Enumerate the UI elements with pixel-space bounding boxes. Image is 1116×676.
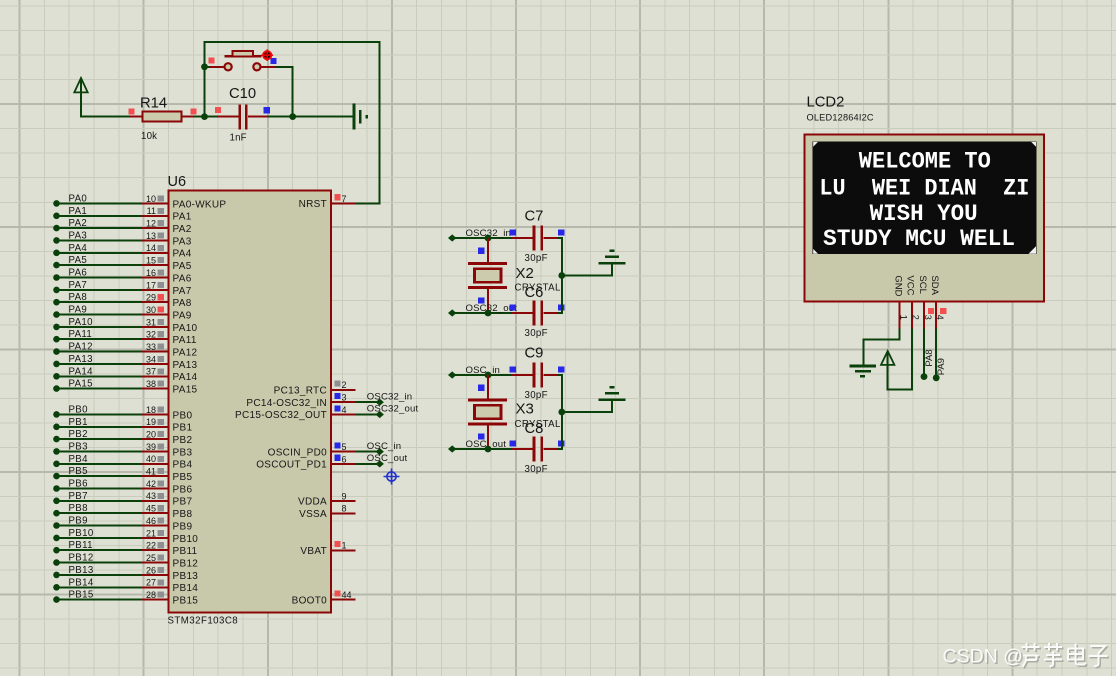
svg-text:PB2: PB2 [69,429,88,440]
svg-text:45: 45 [146,504,156,514]
pin PB15 (28) with wire [53,590,198,607]
origin crosshair marker [384,469,400,485]
svg-text:PA2: PA2 [69,218,88,229]
pin PA14 (37) with wire [53,366,197,383]
svg-text:PA12: PA12 [69,342,93,353]
power arrow (reset pull-up supply) [74,78,87,117]
pin PB13 (26) with wire [53,565,198,582]
pin PB2 (20) with wire [53,429,192,446]
svg-text:32: 32 [146,330,156,340]
wire: C10 right pin to junction B [267,116,293,118]
pin PC13_RTC (2) [274,380,356,396]
junction X3 right rail [558,409,565,416]
svg-text:1: 1 [899,315,909,320]
svg-text:PA1: PA1 [69,206,88,217]
LCD2 OLED12864I2C module [805,95,1045,302]
power arrow (LCD VCC) [881,351,894,365]
junction X2 right rail [558,272,565,279]
svg-text:9: 9 [342,491,347,501]
svg-text:BOOT0: BOOT0 [292,595,328,606]
capacitor C7 30pF (top) [512,208,564,263]
capacitor C9 30pF (top) [512,345,564,401]
pin PA4 (14) with wire [53,243,191,260]
svg-text:NRST: NRST [299,199,327,210]
svg-text:X2: X2 [516,265,534,282]
svg-text:PA2: PA2 [173,224,192,235]
pin PA10 (31) with wire [53,317,197,334]
svg-text:U6: U6 [168,174,187,190]
svg-text:PB1: PB1 [69,417,88,428]
svg-text:18: 18 [146,405,156,415]
pin NRST (7) [299,194,356,210]
svg-text:34: 34 [146,354,156,364]
svg-text:1nF: 1nF [230,133,247,144]
pin PB1 (19) with wire [53,417,192,434]
pin PB4 (40) with wire [53,454,192,471]
wire: junction A to C10 left pin [205,116,219,118]
pin PC15-OSC32_OUT (4) net OSC32_out [235,405,356,421]
pin PB14 (27) with wire [53,577,198,594]
junction X3 top [485,372,492,379]
svg-text:GND: GND [893,275,904,296]
svg-text:31: 31 [146,317,156,327]
svg-text:PB9: PB9 [69,516,88,527]
pin VSSA (8) [299,504,355,520]
svg-text:PA3: PA3 [69,230,88,241]
net OSC32_out (crystal side wire) [448,303,517,317]
svg-text:C6: C6 [525,285,544,301]
svg-text:PA8: PA8 [173,298,192,309]
svg-text:PB15: PB15 [173,596,199,607]
svg-text:PA5: PA5 [173,261,192,272]
ground (X2) [599,251,626,264]
svg-text:20: 20 [146,430,156,440]
LCD pin 3 SCL [917,275,934,328]
svg-text:PA10: PA10 [173,323,198,334]
svg-text:PC14-OSC32_IN: PC14-OSC32_IN [246,398,327,409]
svg-text:PC15-OSC32_OUT: PC15-OSC32_OUT [235,410,327,421]
svg-text:OSC32_out: OSC32_out [466,303,518,314]
svg-text:PB11: PB11 [69,540,93,551]
svg-text:VDDA: VDDA [298,497,327,508]
svg-text:LU WEI DIAN ZI: LU WEI DIAN ZI [819,176,1029,202]
wire: button left junction leads [205,66,211,68]
svg-text:PA5: PA5 [69,255,88,266]
resistor R14 10k [128,96,196,143]
svg-text:33: 33 [146,342,156,352]
svg-text:PA6: PA6 [173,273,192,284]
pin BOOT0 (44) [292,590,356,606]
svg-text:4: 4 [342,405,347,415]
svg-text:PB6: PB6 [69,479,88,490]
svg-text:PA14: PA14 [173,372,198,383]
junction A [201,113,208,120]
svg-text:4: 4 [935,315,945,320]
svg-text:PA4: PA4 [69,243,88,254]
ground (right of C10, rotated) [354,103,367,129]
wire: LCD VCC to power arrow [888,328,912,389]
svg-text:PB0: PB0 [173,410,193,421]
svg-text:10k: 10k [141,131,157,142]
pin PA13 (34) with wire [53,354,197,371]
svg-text:15: 15 [146,256,156,266]
svg-text:41: 41 [146,467,156,477]
pin PA0 (10) with wire [53,193,226,210]
svg-text:OSC_in: OSC_in [367,441,402,452]
pin PA1 (11) with wire [53,206,191,223]
svg-text:42: 42 [146,479,156,489]
svg-text:PA11: PA11 [173,335,197,346]
svg-text:OSCIN_PD0: OSCIN_PD0 [268,447,328,458]
net OSC_in (crystal side wire) [448,365,516,379]
pin PA15 (38) with wire [53,379,197,396]
svg-text:PB12: PB12 [69,553,94,564]
pin PC14-OSC32_IN (3) net OSC32_in [246,393,355,409]
svg-text:5: 5 [342,442,347,452]
wire: LCD GND to ground [864,328,900,365]
svg-text:30pF: 30pF [525,390,548,401]
svg-text:PB5: PB5 [173,472,193,483]
junction B [289,113,296,120]
svg-text:13: 13 [146,231,156,241]
pin PA2 (12) with wire [53,218,191,235]
wire: X3 rail to ground [562,400,612,412]
junction X2 bottom [485,310,492,317]
svg-text:44: 44 [342,590,352,600]
LCD text lines [819,149,1029,253]
svg-text:PA11: PA11 [69,329,93,340]
pin PA12 (33) with wire [53,342,197,359]
svg-text:PA7: PA7 [69,280,88,291]
wire: junction B to ground [293,116,353,118]
IC U6 STM32F103C8 [168,174,332,627]
svg-text:PA13: PA13 [173,360,198,371]
svg-text:PC13_RTC: PC13_RTC [274,386,327,397]
svg-text:PB13: PB13 [69,565,94,576]
svg-text:7: 7 [342,194,347,204]
svg-text:19: 19 [146,417,156,427]
svg-text:PB7: PB7 [173,497,193,508]
svg-text:PB10: PB10 [69,528,94,539]
wire: X2 caps right rail [558,238,562,313]
svg-text:PB1: PB1 [173,423,193,434]
svg-text:PA4: PA4 [173,249,192,260]
wire: NRST loop top (junction C up, across, down to pin 7) [205,42,380,203]
svg-text:PB8: PB8 [173,509,193,520]
pin PB7 (43) with wire [53,491,192,508]
junction PA9 [933,374,940,381]
svg-text:PA8: PA8 [69,292,88,303]
svg-text:SCL: SCL [917,275,928,293]
pin PA7 (17) with wire [53,280,191,297]
svg-text:PB10: PB10 [173,534,199,545]
pin PB3 (39) with wire [53,441,192,458]
ground (X3) [599,387,626,400]
svg-text:WISH YOU: WISH YOU [870,201,978,227]
svg-text:PB4: PB4 [173,460,193,471]
ground (LCD) [849,366,876,376]
wire: NRST loop (button right to junction B) [275,67,292,117]
crystal X3 CRYSTAL [468,375,561,449]
svg-text:C10: C10 [229,86,256,102]
LCD pin 2 VCC [905,275,921,328]
svg-text:17: 17 [146,280,156,290]
svg-text:PA15: PA15 [69,379,93,390]
svg-text:OSC32_in: OSC32_in [367,391,412,402]
net OSC32_in (crystal side wire) [448,228,516,242]
pin OSCOUT_PD1 (6) net OSC_out [256,454,355,470]
svg-text:PB4: PB4 [69,454,89,465]
junction X3 bottom [485,446,492,453]
pin PA11 (32) with wire [53,329,197,346]
LCD screen corner marks [813,142,1036,254]
pin OSCIN_PD0 (5) net OSC_in [268,442,356,458]
pin PB0 (18) with wire [53,404,192,421]
svg-text:10: 10 [146,194,156,204]
svg-text:37: 37 [146,367,156,377]
junction X2 top [485,235,492,242]
pin PB6 (42) with wire [53,479,192,496]
svg-text:40: 40 [146,454,156,464]
svg-text:8: 8 [342,504,347,514]
pin VDDA (9) [298,491,355,507]
svg-text:PB0: PB0 [69,404,89,415]
svg-text:PA1: PA1 [173,212,192,223]
svg-text:STUDY MCU WELL: STUDY MCU WELL [823,226,1015,252]
wire: X3 caps right rail [558,375,562,449]
svg-text:PB3: PB3 [173,447,193,458]
svg-text:3: 3 [923,315,933,320]
svg-text:30pF: 30pF [525,328,548,339]
svg-text:WELCOME TO: WELCOME TO [859,149,991,175]
svg-text:46: 46 [146,516,156,526]
svg-text:29: 29 [146,293,156,303]
svg-text:PB13: PB13 [173,571,199,582]
wire: X2 rail to ground [562,263,612,275]
button state indicator (red) [261,49,273,61]
svg-text:OLED12864I2C: OLED12864I2C [807,113,874,123]
svg-text:PB7: PB7 [69,491,88,502]
pin PB11 (22) with wire [53,540,197,557]
svg-text:12: 12 [146,219,156,229]
pin PB8 (45) with wire [53,503,192,520]
capacitor C10 1nF [215,86,270,144]
svg-text:R14: R14 [140,96,167,112]
svg-text:OSC32_out: OSC32_out [367,404,419,415]
svg-text:PA3: PA3 [173,236,192,247]
svg-text:43: 43 [146,491,156,501]
svg-text:VCC: VCC [905,275,916,295]
svg-text:22: 22 [146,541,156,551]
svg-text:30pF: 30pF [525,253,548,264]
svg-text:25: 25 [146,553,156,563]
capacitor C6 30pF (bottom) [512,285,564,339]
pin PB12 (25) with wire [53,553,198,570]
svg-text:PB5: PB5 [69,466,88,477]
push button (reset) [208,51,276,71]
svg-text:PA7: PA7 [173,286,192,297]
svg-text:2: 2 [342,380,347,390]
pin PA6 (16) with wire [53,268,191,285]
svg-text:1: 1 [342,541,347,551]
pin PB5 (41) with wire [53,466,192,483]
svg-text:SDA: SDA [929,275,940,295]
svg-text:LCD2: LCD2 [807,95,845,111]
wire: R14 to junction A [194,116,206,118]
svg-text:PB3: PB3 [69,441,88,452]
LCD pin 1 GND [893,275,909,328]
svg-text:21: 21 [146,528,156,538]
svg-text:PA9: PA9 [69,305,88,316]
svg-text:3: 3 [342,393,347,403]
svg-text:PA15: PA15 [173,385,198,396]
svg-text:PB9: PB9 [173,521,193,532]
junction PA8 [921,373,928,380]
svg-text:STM32F103C8: STM32F103C8 [168,616,239,627]
crystal X2 CRYSTAL [468,238,561,313]
svg-text:PA9: PA9 [936,358,947,375]
svg-text:PB12: PB12 [173,559,199,570]
svg-text:PA12: PA12 [173,348,198,359]
svg-text:PB8: PB8 [69,503,88,514]
wire: LCD SDA to net PA9 [935,328,937,377]
svg-text:PB6: PB6 [173,484,193,495]
svg-text:11: 11 [147,206,156,216]
pin VBAT (1) [300,541,355,557]
capacitor C8 30pF (bottom) [512,421,564,475]
svg-text:C7: C7 [525,208,544,224]
svg-text:OSC_in: OSC_in [466,365,501,376]
svg-text:30pF: 30pF [525,464,548,475]
svg-text:VSSA: VSSA [299,509,327,520]
pin PB9 (46) with wire [53,516,192,533]
svg-text:6: 6 [342,454,347,464]
svg-text:C8: C8 [525,421,544,437]
svg-text:PB2: PB2 [173,435,193,446]
pin PA3 (13) with wire [53,230,191,247]
svg-text:OSCOUT_PD1: OSCOUT_PD1 [256,460,327,471]
svg-text:PA0-WKUP: PA0-WKUP [173,199,227,210]
LCD pin 4 SDA [929,275,946,328]
pin PA9 (30) with wire [53,305,191,322]
svg-text:PA10: PA10 [69,317,94,328]
svg-text:27: 27 [146,578,156,588]
svg-text:PB14: PB14 [173,583,199,594]
wire: supply to R14 left pin [80,116,130,118]
pin PB10 (21) with wire [53,528,198,545]
svg-text:28: 28 [146,590,156,600]
svg-text:PA14: PA14 [69,366,94,377]
svg-text:PA13: PA13 [69,354,93,365]
svg-text:CSDN @: CSDN @ [943,646,1023,668]
svg-text:PB11: PB11 [173,546,198,557]
svg-text:X3: X3 [516,401,534,418]
svg-text:C9: C9 [525,345,544,361]
pin PA5 (15) with wire [53,255,191,272]
svg-text:PA6: PA6 [69,268,88,279]
pin PA8 (29) with wire [53,292,191,309]
svg-text:VBAT: VBAT [300,546,327,557]
svg-text:2: 2 [911,315,921,320]
net OSC_out (crystal side wire) [448,439,516,453]
svg-text:26: 26 [146,565,156,575]
svg-text:16: 16 [146,268,156,278]
svg-text:14: 14 [146,243,156,253]
svg-text:39: 39 [146,442,156,452]
svg-text:PA8: PA8 [924,349,935,366]
svg-text:PB15: PB15 [69,590,94,601]
junction C (button left) [201,63,208,70]
wire: LCD SCL to net PA8 [923,328,925,376]
svg-text:OSC_out: OSC_out [367,453,408,464]
svg-text:38: 38 [146,379,156,389]
svg-text:30: 30 [146,305,156,315]
svg-text:PB14: PB14 [69,577,94,588]
svg-text:PA9: PA9 [173,311,192,322]
watermark CSDN [943,643,1110,669]
svg-text:PA0: PA0 [69,193,88,204]
